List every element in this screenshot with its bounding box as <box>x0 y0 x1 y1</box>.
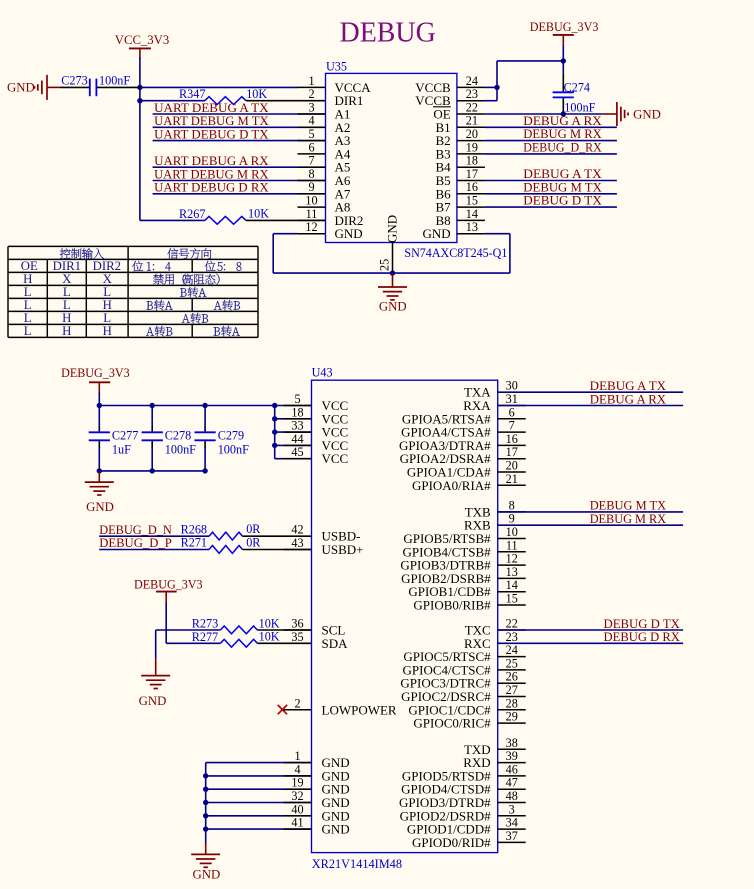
wire DEBUG_3V3 drop to C274 <box>562 46 564 74</box>
svg-text:10: 10 <box>506 525 518 539</box>
svg-text:DEBUG M TX: DEBUG M TX <box>523 180 602 194</box>
svg-text:28: 28 <box>506 696 518 710</box>
svg-text:10K: 10K <box>246 87 267 101</box>
resistor R268 0R <box>181 522 312 540</box>
wire VCC bus to U43 <box>99 393 311 459</box>
svg-text:10K: 10K <box>259 630 280 644</box>
junction DEBUG_3V3 node <box>561 58 566 63</box>
svg-text:13: 13 <box>466 220 478 234</box>
svg-text:GND: GND <box>379 300 407 314</box>
svg-text:5: 5 <box>294 392 300 406</box>
wire net DEBUG_D_P <box>99 549 209 551</box>
junction GND bus <box>203 826 208 831</box>
svg-text:UART DEBUG A RX: UART DEBUG A RX <box>154 154 269 168</box>
svg-text:DEBUG D RX: DEBUG D RX <box>604 630 681 644</box>
svg-text:100nF: 100nF <box>165 443 196 457</box>
svg-text:20: 20 <box>466 127 478 141</box>
truth table frame <box>8 246 258 337</box>
capacitor C278 100nF <box>142 426 197 471</box>
svg-text:1: 1 <box>308 74 314 88</box>
svg-text:42: 42 <box>291 523 303 537</box>
svg-text:33: 33 <box>291 419 303 433</box>
svg-text:GPIOD0/RID#: GPIOD0/RID# <box>412 835 491 850</box>
table header 控制输入 / 信号方向 <box>60 248 212 259</box>
power port VCC_3V3 <box>115 33 170 59</box>
svg-text:5: 5 <box>308 127 314 141</box>
junction VCC pins <box>272 429 277 434</box>
junction at pin 1 row <box>137 85 142 90</box>
svg-text:43: 43 <box>291 536 303 550</box>
svg-text:4: 4 <box>294 762 300 776</box>
svg-text:1uF: 1uF <box>112 443 131 457</box>
svg-text:X: X <box>103 272 113 286</box>
resistor R277 10K <box>192 630 312 648</box>
svg-text:8: 8 <box>509 498 515 512</box>
wire GND to R273 <box>156 630 221 659</box>
svg-text:100nF: 100nF <box>99 74 130 88</box>
svg-text:6: 6 <box>509 405 515 419</box>
svg-text:SDA: SDA <box>322 636 349 651</box>
svg-text:22: 22 <box>466 100 478 114</box>
svg-text:DEBUG M TX: DEBUG M TX <box>590 499 667 513</box>
wire net UART_DEBUG_D_TX <box>153 140 326 142</box>
svg-text:7: 7 <box>308 154 314 168</box>
svg-text:R271: R271 <box>181 536 207 550</box>
svg-text:C278: C278 <box>165 428 191 442</box>
svg-text:DEBUG_3V3: DEBUG_3V3 <box>61 366 130 380</box>
junction VCC pins <box>272 443 277 448</box>
svg-text:27: 27 <box>506 683 518 697</box>
svg-text:45: 45 <box>291 445 303 459</box>
svg-text:L: L <box>24 311 32 325</box>
svg-text:23: 23 <box>506 630 518 644</box>
table row H X X 禁用（高阻态） <box>23 272 219 286</box>
svg-text:UART DEBUG M TX: UART DEBUG M TX <box>154 114 269 128</box>
wire net UART_DEBUG_M_TX <box>153 126 326 128</box>
svg-text:12: 12 <box>305 220 317 234</box>
svg-text:DEBUG_D_N: DEBUG_D_N <box>99 523 172 537</box>
svg-text:2: 2 <box>294 696 300 710</box>
svg-text:12: 12 <box>506 552 518 566</box>
svg-text:8: 8 <box>308 167 314 181</box>
wire net DEBUG_M_TX <box>485 193 617 195</box>
svg-text:21: 21 <box>466 114 478 128</box>
power port DEBUG_3V3 (at R277) <box>134 577 203 604</box>
svg-text:UART DEBUG M RX: UART DEBUG M RX <box>154 167 269 181</box>
svg-text:SN74AXC8T245-Q1: SN74AXC8T245-Q1 <box>404 246 507 260</box>
power port DEBUG_3V3 (above C277) <box>61 366 130 394</box>
wire net DEBUG_A_TX <box>498 391 683 393</box>
svg-text:25: 25 <box>506 656 518 670</box>
junction at pin 2 row <box>137 98 142 103</box>
svg-text:DEBUG D TX: DEBUG D TX <box>523 194 602 208</box>
svg-text:24: 24 <box>466 74 478 88</box>
svg-text:26: 26 <box>506 670 518 684</box>
svg-text:7: 7 <box>509 419 515 433</box>
svg-text:GND: GND <box>335 226 363 241</box>
svg-text:DEBUG: DEBUG <box>340 18 436 49</box>
wire U35 GND pins 12,13,25 <box>273 234 510 273</box>
svg-text:U43: U43 <box>312 366 333 380</box>
svg-text:UART DEBUG D TX: UART DEBUG D TX <box>154 127 269 141</box>
U43 right pin stubs, numbers and names <box>399 379 526 850</box>
svg-text:29: 29 <box>506 710 518 724</box>
svg-text:LOWPOWER: LOWPOWER <box>322 702 397 717</box>
table row L L H B转A A转B <box>24 298 240 312</box>
svg-text:16: 16 <box>506 432 518 446</box>
U35 right pin stubs, numbers 24-13 and names <box>415 74 485 241</box>
wire net UART_DEBUG_A_RX <box>153 166 326 168</box>
svg-text:L: L <box>24 324 32 338</box>
svg-text:U35: U35 <box>326 60 347 74</box>
ground GND (below U43) <box>191 843 220 881</box>
svg-text:10: 10 <box>305 194 317 208</box>
junction VCC bus <box>202 403 207 408</box>
power port DEBUG_3V3 (top) <box>530 20 599 47</box>
svg-text:L: L <box>103 285 111 299</box>
junction GND bus <box>203 813 208 818</box>
svg-text:14: 14 <box>506 578 518 592</box>
svg-text:9: 9 <box>308 180 314 194</box>
wire VCCB pins 24/23 to DEBUG_3V3 <box>485 61 563 101</box>
svg-text:DEBUG A RX: DEBUG A RX <box>523 114 602 128</box>
junction cap bus <box>150 468 155 473</box>
svg-text:25: 25 <box>377 259 391 271</box>
svg-text:GND: GND <box>193 867 221 881</box>
table header OE DIR1 DIR2 位1：4 位5：8 <box>21 259 242 273</box>
svg-text:USBD+: USBD+ <box>322 542 364 557</box>
svg-text:GND: GND <box>385 215 400 243</box>
svg-text:17: 17 <box>466 167 478 181</box>
IC U43 XR21V1414IM48 body <box>312 366 498 872</box>
svg-text:OE: OE <box>21 259 38 273</box>
ground GND (right of C274) <box>603 102 661 126</box>
svg-text:H: H <box>23 272 32 286</box>
svg-text:9: 9 <box>509 512 515 526</box>
svg-text:H: H <box>62 324 71 338</box>
svg-text:GND: GND <box>86 500 114 514</box>
svg-text:14: 14 <box>466 207 478 221</box>
svg-text:C277: C277 <box>112 428 138 442</box>
wire net DEBUG_A_RX <box>485 126 617 128</box>
junction GND bus <box>203 787 208 792</box>
svg-text:32: 32 <box>291 789 303 803</box>
svg-text:XR21V1414IM48: XR21V1414IM48 <box>312 857 402 871</box>
wire net DEBUG_D_RX <box>498 642 683 644</box>
junction cap bus <box>202 468 207 473</box>
svg-text:23: 23 <box>466 87 478 101</box>
svg-text:C279: C279 <box>218 428 244 442</box>
svg-text:DEBUG_3V3: DEBUG_3V3 <box>134 577 203 591</box>
svg-text:C273: C273 <box>61 74 87 88</box>
svg-text:DEBUG_D_P: DEBUG_D_P <box>99 536 172 550</box>
svg-text:41: 41 <box>291 816 303 830</box>
resistor R271 0R <box>181 536 312 554</box>
junction C274 to OE row <box>561 111 566 116</box>
svg-text:44: 44 <box>291 432 303 446</box>
svg-text:L: L <box>24 298 32 312</box>
resistor R347 10K <box>140 87 326 105</box>
table row L H H A转B B转A <box>24 324 240 338</box>
svg-text:VCC_3V3: VCC_3V3 <box>115 33 170 47</box>
svg-text:36: 36 <box>291 617 303 631</box>
svg-text:100nF: 100nF <box>218 443 249 457</box>
svg-text:6: 6 <box>308 140 314 154</box>
svg-text:1: 1 <box>294 749 300 763</box>
wire net DEBUG_D_RX <box>485 153 617 155</box>
svg-text:DEBUG M RX: DEBUG M RX <box>590 512 667 526</box>
junction VCC bus <box>97 403 102 408</box>
svg-text:21: 21 <box>506 472 518 486</box>
svg-text:22: 22 <box>506 617 518 631</box>
svg-text:GND: GND <box>322 822 350 837</box>
junction pin 25 GND <box>390 270 395 275</box>
junction VCC bus <box>272 403 277 408</box>
svg-text:10K: 10K <box>248 207 269 221</box>
svg-text:15: 15 <box>506 592 518 606</box>
svg-text:H: H <box>103 324 112 338</box>
svg-text:16: 16 <box>466 180 478 194</box>
svg-text:GND: GND <box>139 694 167 708</box>
svg-text:24: 24 <box>506 643 518 657</box>
wire DEBUG_3V3 to R277 <box>166 603 220 643</box>
wire net DEBUG_M_RX <box>498 524 683 526</box>
svg-text:48: 48 <box>506 789 518 803</box>
svg-text:19: 19 <box>466 140 478 154</box>
svg-text:3: 3 <box>509 802 515 816</box>
svg-text:15: 15 <box>466 194 478 208</box>
svg-text:VCC: VCC <box>322 451 349 466</box>
svg-text:0R: 0R <box>246 522 261 536</box>
junction GND bus <box>203 773 208 778</box>
resistor R273 10K <box>192 616 312 634</box>
junction cap bus <box>97 468 102 473</box>
wire net DEBUG_M_TX <box>498 511 683 513</box>
svg-text:C274: C274 <box>564 80 590 94</box>
svg-text:18: 18 <box>291 405 303 419</box>
wire U43 GND pins bus <box>206 763 312 844</box>
svg-text:L: L <box>63 285 71 299</box>
svg-text:31: 31 <box>506 392 518 406</box>
capacitor C277 1uF <box>89 426 139 471</box>
svg-text:GND: GND <box>423 226 451 241</box>
svg-text:H: H <box>62 311 71 325</box>
svg-text:DEBUG M RX: DEBUG M RX <box>523 127 602 141</box>
svg-text:13: 13 <box>506 565 518 579</box>
wire net UART_DEBUG_D_RX <box>153 193 326 195</box>
U43 left pin stubs, numbers and names <box>284 392 397 837</box>
svg-text:18: 18 <box>466 154 478 168</box>
IC U35 SN74AXC8T245-Q1 body <box>326 60 508 260</box>
svg-text:0R: 0R <box>246 536 261 550</box>
svg-text:3: 3 <box>308 100 314 114</box>
svg-text:47: 47 <box>506 776 518 790</box>
ground GND (below U35) <box>378 273 407 314</box>
svg-text:X: X <box>62 272 72 286</box>
svg-text:GND: GND <box>7 81 35 95</box>
wire cap bottom bus <box>99 470 205 472</box>
svg-text:11: 11 <box>306 207 318 221</box>
svg-text:4: 4 <box>308 114 314 128</box>
ground GND (left, at C273) <box>7 75 60 100</box>
wire OE pin 22 to GND <box>485 113 603 115</box>
table row L H L A转B <box>24 311 208 325</box>
svg-text:GPIOC0/RIC#: GPIOC0/RIC# <box>413 716 491 731</box>
svg-text:R347: R347 <box>179 87 205 101</box>
svg-text:DEBUG D TX: DEBUG D TX <box>604 617 681 631</box>
svg-text:H: H <box>103 298 112 312</box>
wire net DEBUG_A_RX <box>498 405 683 407</box>
capacitor C274 100nF <box>553 73 596 114</box>
svg-text:11: 11 <box>506 538 518 552</box>
svg-text:GND: GND <box>633 107 661 121</box>
svg-text:2: 2 <box>308 87 314 101</box>
wire net DEBUG_D_N <box>99 535 209 537</box>
U35 bottom pin 25 stub, number and GND pin name <box>377 215 399 273</box>
resistor R267 10K <box>140 207 326 225</box>
wire net UART_DEBUG_A_TX <box>153 113 326 115</box>
svg-text:R267: R267 <box>179 207 205 221</box>
svg-text:R277: R277 <box>192 630 218 644</box>
ground GND (below C277) <box>85 471 114 514</box>
svg-text:30: 30 <box>506 379 518 393</box>
wire net UART_DEBUG_M_RX <box>153 180 326 182</box>
svg-text:100nF: 100nF <box>564 101 595 115</box>
svg-text:UART DEBUG A TX: UART DEBUG A TX <box>154 101 269 115</box>
junction VCCB pin24 <box>494 85 499 90</box>
svg-text:39: 39 <box>506 749 518 763</box>
svg-text:DIR1: DIR1 <box>53 259 81 273</box>
junction VCC pins <box>272 416 277 421</box>
svg-text:19: 19 <box>291 776 303 790</box>
svg-text:L: L <box>24 285 32 299</box>
svg-text:35: 35 <box>291 630 303 644</box>
svg-text:R273: R273 <box>192 617 218 631</box>
junction VCC bus <box>150 403 155 408</box>
svg-text:DEBUG_D_RX: DEBUG_D_RX <box>523 141 602 155</box>
svg-text:10K: 10K <box>259 616 280 630</box>
svg-text:38: 38 <box>506 736 518 750</box>
svg-text:20: 20 <box>506 459 518 473</box>
capacitor C273 100nF <box>60 74 140 97</box>
svg-text:R268: R268 <box>181 522 207 536</box>
U35 left pin stubs, numbers 1-12 and names <box>298 74 372 241</box>
svg-text:GPIOB0/RIB#: GPIOB0/RIB# <box>413 598 491 613</box>
no-connect cross at LOWPOWER pin 2 <box>278 705 287 714</box>
wire net DEBUG_D_TX <box>498 629 683 631</box>
wire VCC_3V3 net <box>140 58 298 221</box>
svg-text:46: 46 <box>506 762 518 776</box>
svg-text:DEBUG A TX: DEBUG A TX <box>590 379 667 393</box>
svg-text:34: 34 <box>506 816 518 830</box>
svg-text:L: L <box>103 311 111 325</box>
capacitor C279 100nF <box>195 426 250 471</box>
wire net DEBUG_M_RX <box>485 140 617 142</box>
svg-text:DIR2: DIR2 <box>93 259 121 273</box>
junction GND bus <box>203 800 208 805</box>
svg-text:37: 37 <box>506 829 518 843</box>
svg-text:L: L <box>63 298 71 312</box>
svg-text:DEBUG_3V3: DEBUG_3V3 <box>530 20 599 34</box>
svg-text:DEBUG A RX: DEBUG A RX <box>590 392 667 406</box>
table row L L L B转A <box>24 285 207 299</box>
wire net DEBUG_A_TX <box>485 180 617 182</box>
svg-text:GPIOA0/RIA#: GPIOA0/RIA# <box>412 478 491 493</box>
ground GND (below R273) <box>139 658 171 708</box>
svg-text:40: 40 <box>291 802 303 816</box>
svg-text:UART DEBUG D RX: UART DEBUG D RX <box>154 181 269 195</box>
svg-text:DEBUG A TX: DEBUG A TX <box>523 167 602 181</box>
svg-text:17: 17 <box>506 445 518 459</box>
wire net DEBUG_D_TX <box>485 206 617 208</box>
